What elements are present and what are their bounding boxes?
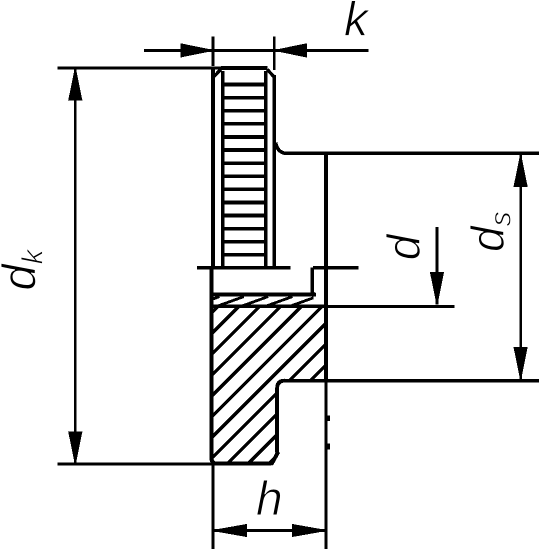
svg-text:d: d — [378, 233, 430, 260]
svg-text:k: k — [344, 0, 371, 47]
svg-text:h: h — [256, 473, 283, 526]
